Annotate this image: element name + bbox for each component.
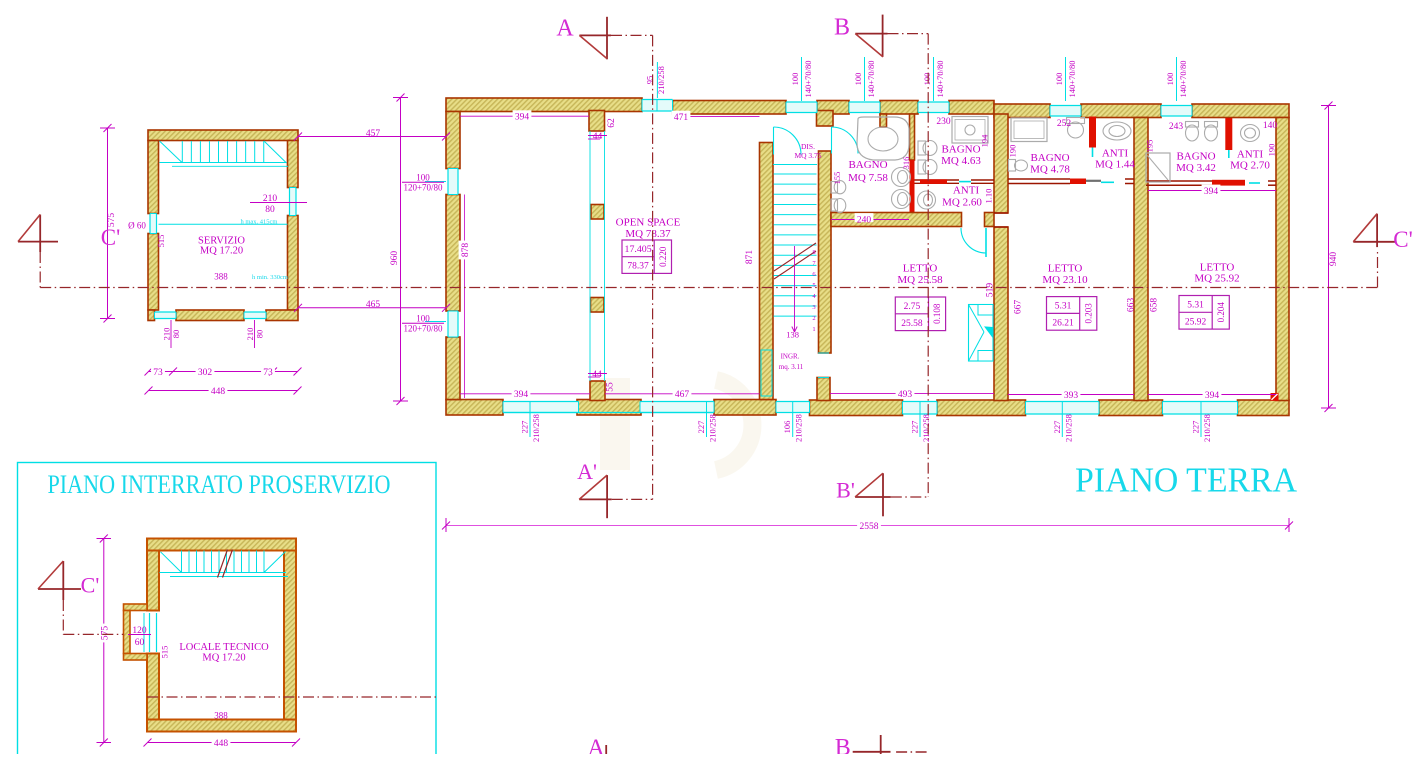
svg-text:25.92: 25.92 <box>1185 317 1207 327</box>
svg-text:388: 388 <box>214 711 228 721</box>
svg-text:2.75: 2.75 <box>904 302 921 312</box>
svg-text:A: A <box>587 735 605 754</box>
svg-text:120+70/80: 120+70/80 <box>403 324 443 334</box>
svg-text:MQ 7.58: MQ 7.58 <box>848 172 888 184</box>
svg-text:MQ 1.44: MQ 1.44 <box>1095 158 1135 170</box>
svg-text:5.31: 5.31 <box>1187 301 1204 311</box>
svg-text:252: 252 <box>1057 119 1072 129</box>
svg-text:210/258: 210/258 <box>531 414 541 442</box>
svg-text:467: 467 <box>675 390 690 400</box>
svg-text:LETTO: LETTO <box>1048 262 1083 274</box>
svg-text:394: 394 <box>515 113 530 123</box>
svg-text:62: 62 <box>607 118 617 128</box>
svg-text:448: 448 <box>211 387 226 397</box>
svg-text:8: 8 <box>812 249 815 256</box>
svg-text:227: 227 <box>519 421 529 434</box>
svg-text:PIANO INTERRATO PROSERVIZIO: PIANO INTERRATO PROSERVIZIO <box>48 470 391 499</box>
svg-text:MQ 25.58: MQ 25.58 <box>897 274 943 286</box>
svg-text:OPEN SPACE: OPEN SPACE <box>616 216 681 228</box>
svg-text:MQ 2.60: MQ 2.60 <box>942 196 982 208</box>
svg-text:DIS.: DIS. <box>801 142 815 151</box>
svg-text:302: 302 <box>198 368 213 378</box>
svg-text:BAGNO: BAGNO <box>1030 152 1069 164</box>
svg-text:ANTI: ANTI <box>953 184 980 196</box>
svg-text:60: 60 <box>135 638 145 648</box>
svg-text:55: 55 <box>605 382 615 392</box>
svg-text:100: 100 <box>1054 73 1064 86</box>
svg-text:2: 2 <box>812 315 815 322</box>
svg-text:515: 515 <box>159 646 169 659</box>
svg-text:1.10: 1.10 <box>983 189 993 204</box>
svg-text:B: B <box>834 14 850 40</box>
svg-text:17.405: 17.405 <box>625 245 652 255</box>
svg-text:44: 44 <box>592 370 602 380</box>
svg-text:190: 190 <box>1266 144 1276 157</box>
svg-text:140+70/80: 140+70/80 <box>803 61 813 98</box>
svg-text:394: 394 <box>1204 187 1219 197</box>
svg-text:519: 519 <box>985 283 995 298</box>
svg-text:73: 73 <box>153 368 163 378</box>
svg-text:448: 448 <box>214 739 229 749</box>
svg-text:C': C' <box>81 573 100 598</box>
svg-text:230: 230 <box>936 117 951 127</box>
svg-text:471: 471 <box>674 113 689 123</box>
svg-text:940: 940 <box>1329 252 1339 267</box>
svg-text:210/258: 210/258 <box>794 414 804 442</box>
svg-text:B: B <box>835 735 851 754</box>
svg-text:393: 393 <box>1064 391 1079 401</box>
svg-text:1: 1 <box>812 326 815 333</box>
svg-text:575: 575 <box>100 626 110 641</box>
svg-text:5.31: 5.31 <box>1055 302 1072 312</box>
svg-text:878: 878 <box>461 243 471 258</box>
svg-text:210/258: 210/258 <box>921 414 931 442</box>
svg-text:195: 195 <box>1144 140 1154 153</box>
svg-text:663: 663 <box>1126 298 1136 313</box>
svg-text:BAGNO: BAGNO <box>941 143 980 155</box>
svg-text:190: 190 <box>1007 145 1017 158</box>
svg-text:227: 227 <box>696 421 706 434</box>
svg-text:243: 243 <box>1169 122 1184 132</box>
svg-text:227: 227 <box>1190 421 1200 434</box>
svg-text:25.58: 25.58 <box>901 319 923 329</box>
svg-text:155: 155 <box>832 172 842 185</box>
svg-text:210/258: 210/258 <box>707 414 717 442</box>
svg-text:h max. 415cm: h max. 415cm <box>240 219 277 226</box>
svg-text:493: 493 <box>898 390 913 400</box>
svg-text:138: 138 <box>786 329 799 339</box>
svg-text:100: 100 <box>922 73 932 86</box>
svg-text:316: 316 <box>901 157 911 170</box>
svg-text:0.220: 0.220 <box>658 246 668 267</box>
svg-text:667: 667 <box>1013 300 1023 315</box>
svg-text:100: 100 <box>1165 73 1175 86</box>
svg-text:0.204: 0.204 <box>1216 302 1226 323</box>
svg-text:515: 515 <box>156 235 166 248</box>
svg-text:140: 140 <box>1263 121 1278 131</box>
svg-text:MQ 4.78: MQ 4.78 <box>1030 163 1070 175</box>
svg-text:MQ 3.75: MQ 3.75 <box>794 151 821 160</box>
svg-text:78.37: 78.37 <box>627 262 649 272</box>
svg-text:LETTO: LETTO <box>903 262 938 274</box>
svg-text:227: 227 <box>909 421 919 434</box>
svg-text:PIANO TERRA: PIANO TERRA <box>1075 460 1298 499</box>
svg-text:BAGNO: BAGNO <box>848 159 887 171</box>
svg-text:0.108: 0.108 <box>932 303 942 324</box>
svg-text:100: 100 <box>416 314 430 324</box>
svg-text:Ø 60: Ø 60 <box>128 221 146 231</box>
svg-text:394: 394 <box>514 390 529 400</box>
svg-text:210: 210 <box>161 328 171 341</box>
svg-text:100: 100 <box>790 73 800 86</box>
svg-text:INGR.: INGR. <box>781 352 800 360</box>
svg-text:44: 44 <box>593 132 603 142</box>
svg-text:871: 871 <box>745 250 755 265</box>
svg-text:140+70/80: 140+70/80 <box>1067 61 1077 98</box>
svg-text:140+70/80: 140+70/80 <box>866 61 876 98</box>
svg-text:960: 960 <box>390 251 400 266</box>
svg-text:C': C' <box>1393 227 1413 252</box>
svg-text:2558: 2558 <box>860 522 879 532</box>
svg-text:BAGNO: BAGNO <box>1176 150 1215 162</box>
svg-text:100: 100 <box>416 173 430 183</box>
svg-text:80: 80 <box>171 330 181 339</box>
svg-text:5: 5 <box>812 282 815 289</box>
svg-text:26.21: 26.21 <box>1052 318 1074 328</box>
svg-text:658: 658 <box>1149 298 1159 313</box>
svg-text:3: 3 <box>812 304 815 311</box>
svg-text:210/258: 210/258 <box>1063 414 1073 442</box>
svg-text:240: 240 <box>857 215 872 225</box>
svg-text:194: 194 <box>979 134 989 148</box>
svg-text:A: A <box>556 15 574 41</box>
svg-text:73: 73 <box>263 368 273 378</box>
svg-text:h min. 330cm: h min. 330cm <box>252 274 288 281</box>
svg-text:MQ 17.20: MQ 17.20 <box>200 246 243 257</box>
svg-text:mq. 3.11: mq. 3.11 <box>779 363 804 371</box>
svg-text:LOCALE TECNICO: LOCALE TECNICO <box>179 642 269 653</box>
svg-text:210/258: 210/258 <box>1202 414 1212 442</box>
svg-text:394: 394 <box>1205 391 1220 401</box>
svg-text:0.203: 0.203 <box>1083 303 1093 324</box>
svg-text:100: 100 <box>853 73 863 86</box>
svg-text:MQ 3.42: MQ 3.42 <box>1176 162 1216 174</box>
svg-text:457: 457 <box>366 129 381 139</box>
svg-text:106: 106 <box>782 421 792 434</box>
svg-text:C': C' <box>101 225 121 250</box>
svg-text:A': A' <box>577 459 597 484</box>
svg-text:388: 388 <box>214 272 228 282</box>
svg-text:140+70/80: 140+70/80 <box>1178 61 1188 98</box>
svg-text:MQ 4.63: MQ 4.63 <box>941 155 981 167</box>
svg-text:140+70/80: 140+70/80 <box>935 61 945 98</box>
svg-text:B': B' <box>836 478 855 503</box>
svg-text:MQ 25.92: MQ 25.92 <box>1194 272 1239 284</box>
svg-text:227: 227 <box>1052 421 1062 434</box>
svg-text:465: 465 <box>366 300 381 310</box>
svg-text:MQ 23.10: MQ 23.10 <box>1042 274 1088 286</box>
svg-text:MQ 17.20: MQ 17.20 <box>202 653 245 664</box>
svg-text:MQ 78.37: MQ 78.37 <box>625 228 671 240</box>
svg-text:MQ 2.70: MQ 2.70 <box>1230 159 1270 171</box>
svg-text:120+70/80: 120+70/80 <box>403 183 443 193</box>
svg-text:210: 210 <box>245 328 255 341</box>
svg-text:80: 80 <box>265 205 275 215</box>
svg-text:80: 80 <box>254 330 264 339</box>
svg-text:210/258: 210/258 <box>656 66 666 94</box>
